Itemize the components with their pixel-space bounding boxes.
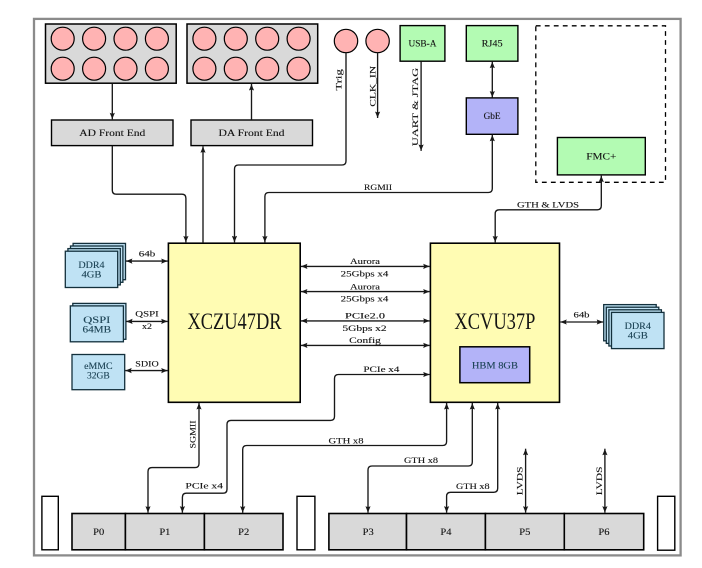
wire RJ45 to GbE [491,62,493,98]
DDR4 4GB stack (right) [604,305,664,349]
CLK_IN input circle [366,29,389,107]
GbE box [466,98,518,134]
wire J1 to AD Front End [111,84,113,120]
connector P0 [72,514,125,550]
svg-text:PCIe x4: PCIe x4 [185,482,224,491]
wire Trig to U1 [235,53,347,243]
edge slot B [297,496,315,550]
wire GTH & LVDS FMC+ to U2 [495,176,601,243]
svg-text:HBM 8GB: HBM 8GB [472,361,518,372]
svg-text:XCVU37P: XCVU37P [454,309,535,334]
wire AD Front End to U1 [112,146,186,243]
svg-text:PCIe x4: PCIe x4 [363,365,400,374]
FPGA U1 XCZU47DR [168,243,300,402]
svg-text:RGMII: RGMII [364,183,392,192]
svg-text:CLK_IN: CLK_IN [368,66,377,107]
wire Config link [301,336,430,345]
svg-text:64b: 64b [139,250,156,259]
svg-text:25Gbps x4: 25Gbps x4 [341,295,390,304]
AD Front End box [52,120,174,146]
wire PCIe x4 U2 to P1 [182,365,429,513]
FMC+ box [557,138,645,175]
svg-text:GbE: GbE [484,111,501,122]
edge slot A [42,496,58,550]
DA Front End box [191,120,313,146]
RJ45 box [466,26,518,62]
svg-text:XCZU47DR: XCZU47DR [188,309,283,334]
wire Aurora link 2 [301,282,430,303]
svg-text:GTH & LVDS: GTH & LVDS [517,200,579,209]
wire 64b DDR4 to U1 [126,250,168,262]
wire UART & JTAG stub [411,62,421,151]
svg-text:5Gbps x2: 5Gbps x2 [342,324,386,333]
USB-A box [400,26,445,62]
connector block J1 (ADC inputs) [46,24,177,83]
svg-text:P0: P0 [93,527,104,538]
svg-text:P4: P4 [440,527,451,538]
svg-text:GTH x8: GTH x8 [404,456,438,465]
svg-text:P6: P6 [598,527,609,538]
wire QSPI x2 to U1 [126,309,168,331]
wire U1 to DA Front End [202,146,204,243]
connector P1 [125,514,204,550]
wire RGMII GbE to U1 [265,135,492,243]
svg-text:64MB: 64MB [83,325,112,336]
DDR4 4GB stack (left) [65,243,125,287]
HBM 8GB block inside U2 [460,347,530,383]
Trig input circle [334,29,357,90]
FPGA U2 XCVU37P [430,243,559,402]
wire Aurora link 1 [301,257,430,278]
wire GTH x8 U2 to P2 [243,403,447,513]
svg-text:P1: P1 [159,527,170,538]
wire LVDS stub P5 [515,449,525,513]
svg-text:Aurora: Aurora [350,257,380,266]
wire CLK_IN stub [377,53,379,118]
QSPI 64MB stack [70,303,126,341]
wire SDIO eMMC to U1 [125,360,168,371]
connector P6 [564,514,643,550]
svg-text:SDIO: SDIO [135,360,158,369]
svg-text:P5: P5 [519,527,530,538]
connector P3 [329,514,407,550]
svg-text:USB-A: USB-A [409,38,437,49]
svg-text:P3: P3 [363,527,374,538]
connector block J2 (DAC outputs) [187,24,318,83]
wire 64b DDR4 to U2 (right) [560,311,603,322]
svg-text:32GB: 32GB [87,371,110,382]
svg-text:GTH x8: GTH x8 [456,482,490,491]
svg-text:UART & JTAG: UART & JTAG [411,68,420,146]
wire PCIe2.0 link [301,312,430,333]
svg-text:P2: P2 [238,527,249,538]
svg-text:Config: Config [349,336,381,345]
svg-text:QSPI: QSPI [135,309,159,318]
FMC+ expansion dashed outline [536,26,666,183]
wire LVDS stub P6 [595,449,605,513]
svg-text:x2: x2 [142,322,152,331]
wire GTH x8 U2 to P4 [447,403,498,513]
svg-text:DA Front End: DA Front End [219,128,285,139]
svg-text:LVDS: LVDS [515,466,524,495]
svg-text:LVDS: LVDS [595,466,604,495]
connector P2 [204,514,283,550]
wire SGMII U1 to P1 [148,403,199,513]
svg-text:4GB: 4GB [628,331,648,342]
svg-text:Aurora: Aurora [350,282,380,291]
eMMC 32GB box [72,355,125,390]
edge slot C [658,496,675,550]
svg-text:GTH x8: GTH x8 [329,436,364,445]
svg-text:25Gbps x4: 25Gbps x4 [341,269,390,278]
connector P5 [485,514,564,550]
wire GTH x8 U2 to P3 [368,403,472,513]
svg-text:PCIe2.0: PCIe2.0 [345,312,385,321]
svg-text:64b: 64b [574,311,590,320]
svg-text:FMC+: FMC+ [586,151,616,162]
svg-text:RJ45: RJ45 [482,38,503,49]
wire DA Front End to J2 [251,84,253,120]
svg-text:AD Front End: AD Front End [79,128,145,139]
connector P4 [407,514,486,550]
svg-text:Trig: Trig [335,69,344,90]
svg-text:SGMII: SGMII [188,420,197,448]
svg-text:4GB: 4GB [82,269,102,280]
